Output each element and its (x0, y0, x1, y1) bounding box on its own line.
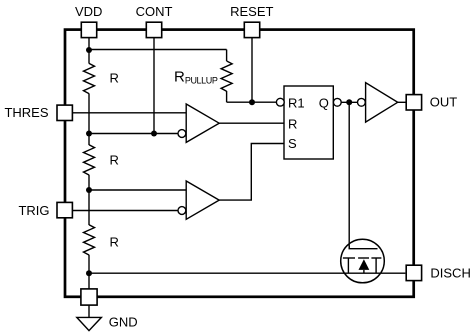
wire node D bottom rail to DISCH (89, 272, 405, 274)
pin CONT (146, 22, 161, 37)
svg-text:THRES: THRES (4, 105, 48, 120)
wire latch Q to buffer (341, 101, 357, 103)
resistor R (bottom) (84, 225, 95, 255)
node Q junction dot (346, 99, 352, 105)
wire second R bottom to node C (88, 175, 90, 190)
wire node C to third R (88, 190, 90, 225)
transistor Q1 body circle (341, 239, 385, 283)
transistor Q1 source stub (347, 258, 349, 273)
wire THRES to comparator U1 (73, 112, 187, 114)
transistor Q1 body arrow (359, 259, 370, 270)
svg-text:GND: GND (109, 314, 138, 329)
pin RESET (244, 22, 259, 37)
pin TRIG (57, 202, 72, 217)
pin OUT (406, 95, 421, 110)
pin THRES (57, 105, 72, 120)
transistor Q1 channel bar middle (358, 257, 369, 259)
transistor Q1 body stub (363, 270, 365, 273)
wire R divider segment node A to R top (88, 50, 90, 64)
junction dot node D (86, 270, 92, 276)
wire VDD pin to node A (88, 38, 90, 50)
wire comparator U1 output to latch R (219, 122, 284, 124)
svg-text:RESET: RESET (230, 4, 273, 19)
svg-text:R: R (110, 153, 119, 168)
wire RPULLUP top lead (226, 50, 228, 62)
svg-text:R: R (110, 235, 119, 250)
pin GND (81, 289, 97, 305)
svg-text:Q: Q (319, 95, 329, 110)
wire node A to RPULLUP top (89, 49, 227, 51)
junction dot CONT at node B (151, 131, 157, 137)
svg-text:DISCH: DISCH (430, 265, 470, 280)
wire RESET vertical (251, 38, 253, 102)
latch Q output bubble (333, 98, 341, 106)
svg-text:R: R (288, 116, 297, 131)
wire buffer output to OUT pin (398, 101, 406, 103)
svg-text:OUT: OUT (430, 94, 458, 109)
resistor R (middle) (84, 145, 95, 175)
latch U3 body (284, 86, 333, 159)
wire node B to second R (88, 134, 90, 146)
wire node C to comparator U2 (89, 189, 186, 191)
wire node D to GND pin (88, 273, 90, 289)
comparator U2 (186, 181, 219, 219)
svg-text:CONT: CONT (136, 4, 173, 19)
svg-text:VDD: VDD (75, 4, 102, 19)
IC boundary box (65, 30, 414, 297)
svg-text:S: S (288, 136, 297, 151)
transistor Q1 channel bar right (371, 257, 381, 259)
wire CONT vertical (153, 38, 155, 134)
junction dot node B (86, 131, 92, 137)
wire third R bottom to node D (88, 255, 90, 273)
pin DISCH (406, 265, 421, 280)
wire comparator U2 output to latch S (219, 144, 284, 201)
transistor Q1 gate bend (349, 246, 377, 249)
svg-text:R: R (110, 71, 119, 86)
pin VDD (81, 22, 96, 37)
wire R bottom to node B (88, 94, 90, 134)
comparator U2 inverting input bubble (178, 207, 186, 215)
junction dot RESET node (249, 99, 255, 105)
latch R1 input bubble (276, 98, 284, 106)
comparator U1 inverting input bubble (178, 130, 186, 138)
junction dot node A (86, 47, 92, 53)
resistor RPULLUP (221, 61, 232, 91)
wire RPULLUP bottom lead (226, 91, 228, 102)
buffer U4 (366, 83, 398, 123)
svg-text:R1: R1 (288, 95, 305, 110)
svg-text:RPULLUP: RPULLUP (174, 68, 218, 85)
wire Q node to Q1 gate (348, 102, 350, 248)
wire RPULLUP bottom to R1 input (227, 101, 277, 103)
svg-text:TRIG: TRIG (18, 203, 49, 218)
buffer U4 input bubble (358, 98, 366, 106)
resistor R (top) (84, 63, 95, 93)
ground symbol (77, 317, 102, 330)
wire GND pin to ground symbol (88, 305, 90, 317)
transistor Q1 drain stub (375, 258, 377, 273)
wire node B to comparator U1 inverting input (89, 133, 178, 135)
transistor Q1 channel bar left (343, 257, 355, 259)
comparator U1 (186, 104, 219, 142)
junction dot node C (86, 187, 92, 193)
wire TRIG to comparator U2 inverting input (73, 210, 178, 212)
